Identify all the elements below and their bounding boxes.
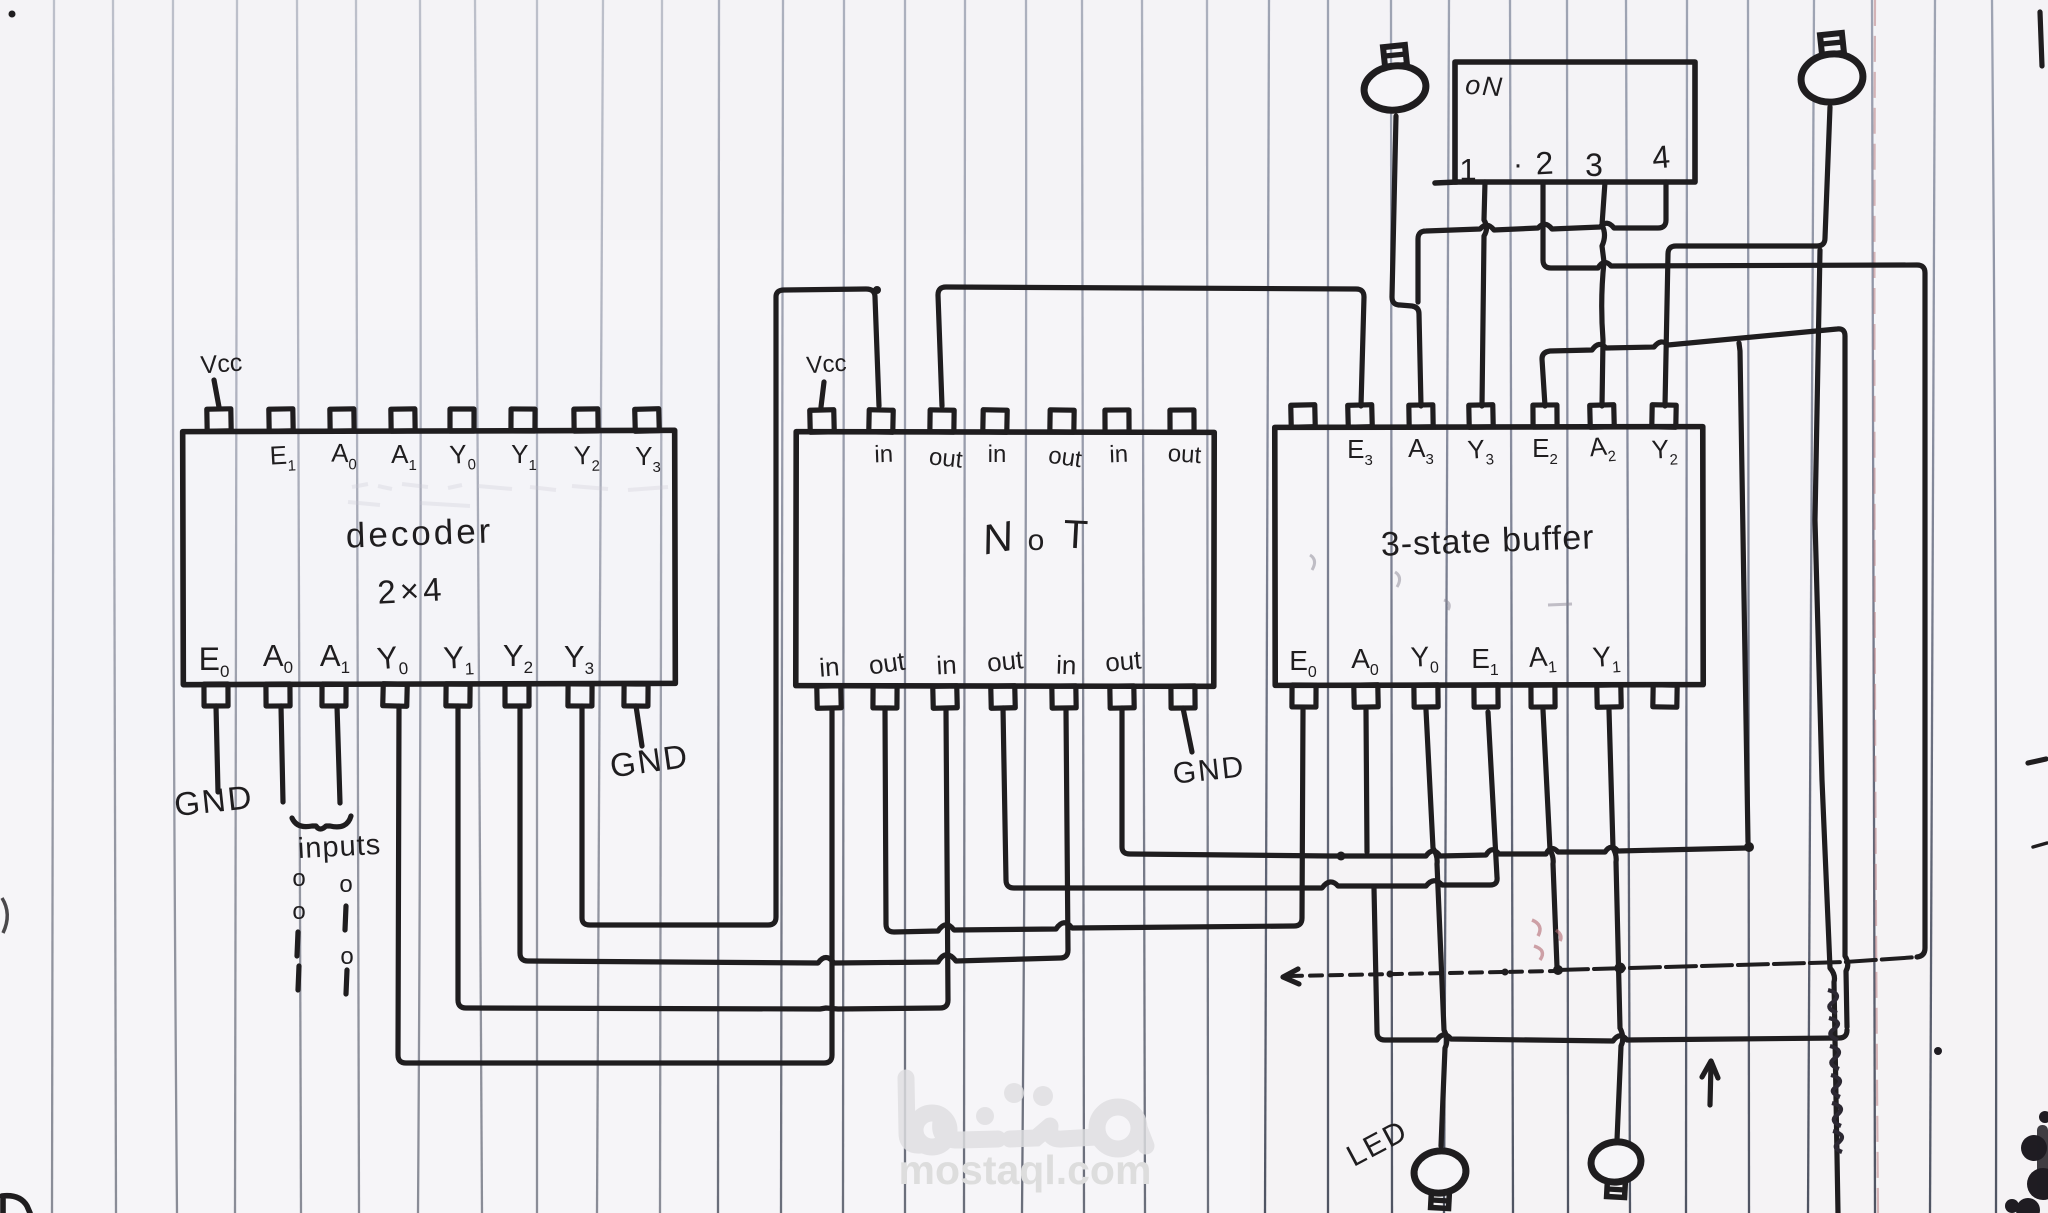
svg-text:in: in: [988, 441, 1007, 468]
wire NOT out3 along long horizontal to buffer E2 loop: [1122, 708, 1746, 856]
svg-text:4: 4: [1651, 138, 1672, 175]
junction dot E2-loop on long wire: [1744, 842, 1754, 852]
svg-text:T: T: [1062, 512, 1089, 557]
wire E2-loop branch down to long wire: [1739, 343, 1748, 842]
input bits column A1: 0 1 0 1: [339, 871, 353, 994]
junction blob Y1-dashed: [1615, 963, 1626, 974]
NOT U2 bottom pins: [817, 686, 1195, 709]
Vcc label (decoder): [200, 349, 244, 380]
buffer U3 bottom pins: [1292, 685, 1677, 707]
left edge curve mark: [2, 898, 7, 933]
DIP switch ON label: [1464, 70, 1505, 103]
svg-text:3: 3: [1585, 147, 1603, 183]
inputs brace: [292, 816, 351, 829]
input bits column A0: 0 0 1 1: [292, 865, 305, 990]
wire decoder pin8 to GND: [636, 706, 642, 746]
svg-text:o: o: [292, 898, 305, 925]
top-right edge fragment: [2040, 12, 2042, 66]
buffer U3 top pins: [1291, 405, 1676, 428]
svg-text:in: in: [1109, 441, 1129, 469]
decoder U1 top pin labels E1 A0 A1 Y0 Y1 Y2 Y3: [269, 438, 661, 476]
svg-text:o: o: [340, 943, 353, 970]
DIP switch SW1 box: [1435, 62, 1695, 183]
inputs label: [297, 829, 382, 865]
wire NOT out1 to buffer E0: [885, 708, 1303, 932]
Vcc label (NOT): [806, 350, 848, 380]
wire buffer Y1 to LED bulb bottom-2: [1609, 710, 1623, 1140]
small up arrow under y1040 wire: [1702, 1061, 1718, 1105]
buffer U3 bottom pin labels E0 A0 Y0 E1 A1 Y1: [1289, 640, 1621, 681]
wire Vcc to NOT pin1: [821, 382, 824, 407]
svg-text:mostaql.com: mostaql.com: [899, 1147, 1152, 1193]
DIP switch pin numbers 1 2 3 4: [1459, 138, 1671, 187]
svg-text:Vcc: Vcc: [806, 350, 848, 380]
dark scribble column right side: [1828, 990, 1842, 1152]
junction dot Y3 corner: [873, 286, 881, 294]
svg-text:3-state buffer: 3-state buffer: [1380, 518, 1595, 563]
svg-text:in: in: [1056, 650, 1077, 681]
wire decoder A1 input stub: [337, 706, 340, 803]
3-state buffer IC U3 body: [1275, 427, 1703, 686]
decoder U1 bottom pins: [204, 684, 648, 707]
svg-text:out: out: [1104, 644, 1143, 677]
svg-text:out: out: [867, 646, 908, 681]
svg-text:2×4: 2×4: [376, 570, 446, 611]
decoder U1 bottom pin labels E0 A0 A1 Y0 Y1 Y2 Y3: [199, 638, 594, 681]
wire right bulb continuation down to page edge: [1815, 250, 1838, 1213]
LED bulb top-left (DS1): [1362, 45, 1429, 114]
wire buffer A0 down to long wire: [1366, 710, 1367, 852]
wire right bulb down to buffer Y2: [1665, 107, 1830, 406]
wire DIP pin1 to buffer Y3: [1482, 182, 1487, 406]
decoder U1 name text: [345, 511, 494, 610]
wire NOT out2 to buffer E1: [1003, 708, 1497, 888]
dashed net wire with left arrow: [1283, 957, 1918, 984]
svg-text:oN: oN: [1464, 70, 1505, 103]
svg-text:out: out: [1047, 442, 1084, 473]
GND label (NOT): [1171, 750, 1247, 790]
svg-text:2: 2: [1535, 145, 1555, 182]
svg-text:o: o: [292, 865, 305, 892]
svg-text:in: in: [818, 651, 840, 682]
NOT U2 top pins: [810, 410, 1194, 433]
NOT U2 top pin labels in/out: [874, 440, 1203, 474]
LED bulb top-right (DS2): [1798, 33, 1865, 106]
faint ghost marks inside decoder: [348, 484, 668, 506]
GND label (decoder E0): [172, 778, 255, 823]
LED label: [1341, 1114, 1413, 1173]
svg-text:Vcc: Vcc: [200, 349, 244, 380]
bottom-right ink blobs: [1934, 1047, 2048, 1213]
GND label (decoder pin8): [608, 737, 692, 785]
svg-text:out: out: [1167, 440, 1202, 469]
faint red marks right of NOT: [1532, 920, 1561, 960]
svg-text:1: 1: [1459, 152, 1476, 187]
svg-text:decoder: decoder: [345, 511, 494, 555]
NOT U2 name text: [978, 512, 1089, 564]
wire DIP pin2 right and down to dashed net: [1543, 182, 1925, 957]
svg-text:o: o: [1028, 524, 1045, 557]
wire Y1 to NOT in2: [458, 706, 948, 1009]
junction dot A0 on long wire: [1337, 852, 1346, 861]
mostaql watermark: [899, 1078, 1152, 1193]
wire DIP pin4 left and down to A3 junction: [1418, 182, 1666, 302]
bottom-left D mark: [2, 1196, 30, 1213]
wire left bulb down to buffer A3: [1392, 116, 1421, 406]
faint smudge marks inside buffer chip: [1310, 555, 1572, 610]
wire buffer Y0 to LED bulb bottom-1: [1426, 710, 1447, 1146]
wire decoder A0 input stub: [281, 706, 283, 802]
junction dots on dashed net: [1387, 969, 1509, 978]
svg-text:in: in: [874, 441, 894, 469]
wire horizontal y1040 from out2-net to E2-loop vertical: [1374, 888, 1847, 1041]
LED bulb bottom-1 (DS3): [1412, 1148, 1469, 1208]
decoder U1 top pins: [207, 409, 659, 432]
wire buffer A1 down to dashed net: [1543, 710, 1557, 967]
svg-text:in: in: [936, 650, 958, 681]
wire Y3 to NOT in-top: [582, 289, 879, 925]
buffer U3 name text: [1380, 518, 1595, 563]
junction blob A1-dashed: [1553, 965, 1563, 975]
LED bulb bottom-2 (DS4): [1589, 1139, 1644, 1197]
svg-text:o: o: [339, 871, 352, 898]
wire decoder E0 to GND: [216, 706, 218, 792]
wire Vcc to decoder pin1: [214, 380, 219, 407]
wire buffer E2 loop up-over-down: [1542, 329, 1848, 1027]
svg-text:inputs: inputs: [297, 829, 382, 865]
buffer U3 top pin labels E3 A3 Y3 E2 A2 Y2: [1347, 430, 1678, 470]
wire NOT pin14 to GND: [1183, 708, 1192, 752]
wire DIP pin3 to buffer A2: [1602, 182, 1605, 406]
top-left dot: [9, 11, 16, 18]
NOT U2 bottom pin labels in/out: [818, 644, 1143, 683]
svg-text:out: out: [986, 644, 1026, 678]
NOT IC U2 body: [796, 432, 1214, 687]
decoder IC U1 body: [183, 430, 676, 684]
right edge small dashes: [2028, 759, 2047, 847]
wire NOT out-top to buffer E3: [938, 287, 1364, 406]
svg-text:·: ·: [1513, 148, 1523, 181]
svg-text:out: out: [928, 443, 964, 473]
wire Y2 to NOT in3: [520, 706, 1068, 963]
wire Y0 to NOT in1: [398, 706, 832, 1063]
